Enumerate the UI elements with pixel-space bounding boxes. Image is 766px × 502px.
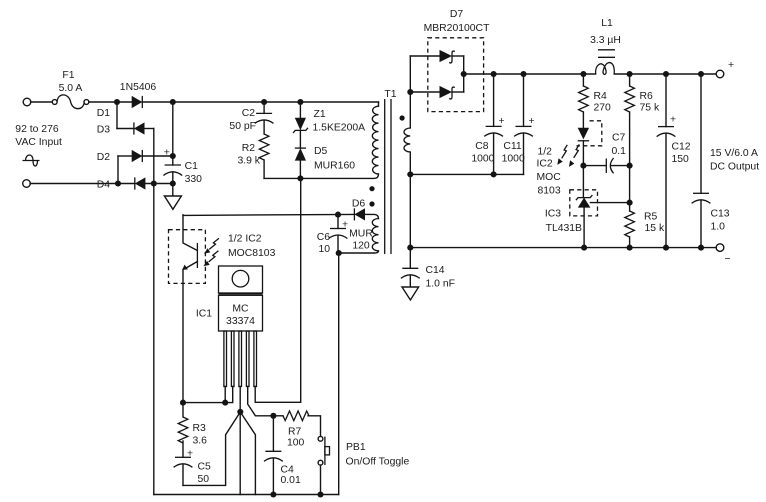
diode D1 [117,96,173,108]
label 150 [672,154,690,165]
output terminal plus [716,70,724,78]
svg-text:C6: C6 [317,232,331,243]
svg-text:1/2: 1/2 [538,147,553,158]
capacitor C6 [329,215,348,253]
svg-text:+: + [528,116,534,127]
label 3.6 [193,436,208,447]
ground C14 [402,287,419,300]
label D4 [97,180,111,191]
wire drain column down to IC1 pin5 [255,178,301,402]
node D3-D4 negative [151,180,157,186]
label 75 k [640,103,660,114]
opto LED dashed box [577,121,602,146]
node D7 anodes [407,89,413,95]
svg-text:33374: 33374 [226,316,255,327]
IC1 pin 3 [239,331,242,387]
label D5 [314,146,328,157]
label C8 1000 [471,154,494,165]
label T1 [384,89,396,100]
svg-text:50 pF: 50 pF [229,121,256,132]
resistor R4 [579,74,589,128]
svg-text:1N5406: 1N5406 [120,82,157,93]
label R5 [644,212,658,223]
wire opto collector rail to D6 [183,214,354,215]
wire pins 1-2 to control node [183,387,233,403]
svg-text:D5: D5 [314,146,328,157]
node PB1 bottom [317,491,323,497]
wire snubber to primary bottom [300,174,378,178]
svg-text:+: + [670,115,676,126]
node IC3 anode bottom [581,245,587,251]
secondary phasing dot [400,115,405,120]
wire snubber bottom [264,177,300,179]
svg-text:0.01: 0.01 [281,475,301,486]
label 1N5406 [120,82,157,93]
node C12 bottom [663,245,669,251]
svg-text:D3: D3 [97,125,111,136]
wire primary ground bottom rail [154,494,339,496]
label TL431B [546,223,582,234]
opto phototransistor (1/2 IC2) [182,215,197,403]
resistor R5 [625,203,635,248]
svg-text:TL431B: TL431B [546,223,582,234]
label F1 [62,70,74,81]
node R3 top [180,400,186,406]
svg-text:On/Off Toggle: On/Off Toggle [346,457,410,468]
svg-text:92 to 276: 92 to 276 [15,124,59,135]
node pin1 control [222,400,228,406]
svg-text:R3: R3 [193,423,207,434]
node rectifier plus [170,99,176,105]
wire AC2 node down D2 to D4 [117,156,119,184]
node C2 top [261,99,267,105]
svg-text:C7: C7 [612,133,626,144]
svg-text:75 k: 75 k [640,103,660,114]
node C6 bottom [336,250,342,256]
svg-text:+: + [498,116,504,127]
label MUR160 [314,161,355,172]
svg-text:T1: T1 [384,89,396,100]
svg-text:15 k: 15 k [645,223,665,234]
wire pin 3 to ground rail [239,387,241,495]
svg-text:R4: R4 [594,91,608,102]
node C6 top [335,212,341,218]
node AC1 [114,99,120,105]
dual diode D7 dashed box [428,38,484,112]
node D7 output [461,71,467,77]
label 3.3 uH [590,35,621,46]
label 0.01 [281,475,301,486]
fuse F1 [52,95,89,109]
transformer core [385,99,391,254]
capacitor C13 [692,74,711,248]
transformer T1 secondary winding [404,56,410,268]
node divider [627,200,633,206]
label C1 [185,161,199,172]
node C12 top [663,71,669,77]
ground primary [164,196,181,209]
svg-text:C2: C2 [242,108,256,119]
label IC3 [545,209,561,220]
label 1.0 [711,222,726,233]
node secondary return [407,171,413,177]
svg-text:1/2 IC2: 1/2 IC2 [228,234,262,245]
label IC2 [537,159,553,170]
wire D7 cathodes join [463,56,465,92]
pushbutton PB1 [318,436,329,494]
node C13 top [698,71,704,77]
wire AC1 node down to D3 [116,102,118,129]
node AC2 [115,180,121,186]
label 1/2 [538,147,553,158]
svg-text:L1: L1 [601,18,613,29]
label IC1 [196,309,212,320]
svg-text:C13: C13 [711,209,730,220]
svg-text:MOC8103: MOC8103 [228,248,276,259]
capacitor C14 [401,268,420,287]
label C6 [317,232,331,243]
label R6 [640,91,654,102]
svg-text:15 V/6.0 A: 15 V/6.0 A [710,148,758,159]
svg-text:0.1: 0.1 [612,146,627,157]
label 50 [198,474,210,485]
svg-text:+: + [164,147,170,158]
wire aux return down to bottom rail [338,253,340,495]
label 1.0 nF [426,279,455,290]
phototransistor light arrows [203,238,219,266]
IC3 TL431B [576,166,593,248]
wire fuse to bridge node [89,101,117,103]
capacitor C4 [264,416,283,495]
label C11 [503,141,522,152]
wire D3 anode down left column [153,129,155,495]
svg-text:100: 100 [287,438,305,449]
label C2 [242,108,256,119]
svg-text:MC: MC [232,304,249,315]
svg-text:D6: D6 [352,199,366,210]
svg-text:R5: R5 [644,212,658,223]
label MOC [537,172,562,183]
label 270 [594,103,612,114]
resistor R2 [259,134,269,178]
wire secondary return rail [410,173,523,175]
zener Z1 [293,102,308,148]
wire output bottom rail [410,247,716,249]
IC1 pin 1 [224,331,227,387]
opto transistor dashed box [169,230,206,284]
node R6 top [627,71,633,77]
IC1 package tab [219,266,263,294]
svg-text:8103: 8103 [538,186,561,197]
label R4 [594,91,608,102]
resistor R6 [625,74,635,203]
capacitor C2 [255,102,274,134]
node D2 cathode to C1 [170,153,176,159]
label 15 k [645,223,665,234]
svg-text:R6: R6 [640,91,654,102]
label 92 to 276 [15,124,59,135]
svg-text:1.0: 1.0 [711,222,726,233]
svg-text:MOC: MOC [537,172,562,183]
svg-text:3.9 k: 3.9 k [237,156,260,167]
svg-text:120: 120 [352,241,370,252]
D7 top diode [410,50,463,63]
diode D4 [118,177,173,189]
svg-text:C12: C12 [672,142,691,153]
IC1 pin 5 [254,331,257,387]
wire IC3 ref to divider [590,202,629,204]
label MOC8103 [228,248,276,259]
svg-text:DC Output: DC Output [710,162,759,173]
svg-text:D2: D2 [97,152,111,163]
primary phasing dot [369,186,374,191]
svg-text:IC2: IC2 [537,159,553,170]
label 5.0 A [59,83,83,94]
svg-text:1000: 1000 [502,154,525,165]
node R5 bottom [627,245,633,251]
node R4 top [580,71,586,77]
node LED cathode / C7 left [580,163,586,169]
label DC Output [710,162,759,173]
diode D3 [117,122,154,134]
node C7 right [627,163,633,169]
svg-text:1000: 1000 [471,154,494,165]
svg-text:MUR160: MUR160 [314,161,355,172]
resistor R7 [273,411,320,436]
svg-text:C5: C5 [198,462,212,473]
IC1 pin 2 [231,331,234,387]
IC1 pin 4 [246,331,249,387]
output terminal minus [716,244,724,252]
svg-text:IC3: IC3 [545,209,561,220]
svg-text:MBR20100CT: MBR20100CT [424,23,490,34]
node C8 bottom [491,171,497,177]
capacitor C11 [514,74,534,174]
label 10 [318,244,330,255]
capacitor C7 [583,158,629,173]
input terminal top [23,98,31,106]
svg-text:PB1: PB1 [346,442,366,453]
label 120 [352,241,370,252]
node output common tap [407,245,413,251]
capacitor C5 [174,449,193,486]
opto LED (1/2 IC2) [578,128,589,166]
svg-text:1.0 nF: 1.0 nF [426,279,455,290]
node C4 bottom [270,491,276,497]
label L1 [601,18,613,29]
label 50 pF [229,121,256,132]
label 3.9 k [237,156,260,167]
label R7 [288,427,302,438]
capacitor C8 [484,74,504,174]
label C11 1000 [502,154,525,165]
wire top input to fuse [31,101,53,103]
label 33374 [226,316,255,327]
label D3 [97,125,111,136]
svg-text:C11: C11 [503,141,522,152]
resistor R3 [178,403,188,458]
svg-text:+: + [728,60,734,71]
input terminal bottom [23,180,31,188]
svg-text:IC1: IC1 [196,309,212,320]
svg-text:150: 150 [672,154,690,165]
capacitor C1 [163,147,182,196]
diode D5 [295,148,306,178]
label C4 [281,465,295,476]
svg-text:330: 330 [185,174,203,185]
wire C1 column [172,102,174,165]
label C14 [426,265,445,276]
label D6 [352,199,366,210]
wire C5 return loop [183,412,240,485]
svg-text:C8: C8 [475,141,489,152]
aux phasing dot [369,201,374,206]
svg-text:10: 10 [318,244,330,255]
wire top rail D1 to transformer [173,101,379,103]
svg-text:D1: D1 [97,108,111,119]
label C8 [475,141,489,152]
node snubber bottom to drain [297,175,303,181]
svg-text:MUR: MUR [349,229,373,240]
wire output rail left of L1 [464,73,596,75]
label C7 [612,133,626,144]
transformer T1 primary winding [372,102,378,174]
wire output rail right of L1 [614,73,716,75]
capacitor C12 [657,74,676,248]
label 0.1 [612,146,627,157]
label 330 [185,174,203,185]
node C1 bottom [170,180,176,186]
IC3 dashed box [570,190,598,216]
svg-text:3.3 µH: 3.3 µH [590,35,621,46]
wire pin 4 to R7 [248,387,274,416]
svg-text:270: 270 [594,103,612,114]
svg-text:D4: D4 [97,180,111,191]
node C8 top [491,71,497,77]
svg-text:−: − [725,254,731,265]
label R2 [242,143,256,154]
label Z1 [314,109,326,120]
label C5 [198,462,212,473]
label D2 [97,152,111,163]
label D1 [97,108,111,119]
label plus [728,60,734,71]
label 1.5KE200A [313,123,366,134]
svg-text:50: 50 [198,474,210,485]
IC1 package body [219,295,263,331]
inductor L1 [596,50,615,75]
transformer T1 aux winding [339,219,379,254]
svg-text:C14: C14 [426,265,445,276]
label On/Off Toggle [346,457,410,468]
svg-text:5.0 A: 5.0 A [59,83,83,94]
node Z1 top [297,99,303,105]
diode D6 [354,208,378,220]
svg-text:C1: C1 [185,161,199,172]
label VAC Input [15,137,62,148]
wire source node right diagonal [240,412,255,495]
label minus [725,254,731,265]
label C13 [711,209,730,220]
wire bottom input to bridge [30,183,118,185]
svg-text:1.5KE200A: 1.5KE200A [313,123,366,134]
D7 bottom diode [410,86,463,99]
label 15 V/6.0 A [710,148,758,159]
diode D2 [118,150,173,162]
label MC [232,304,249,315]
svg-text:Z1: Z1 [314,109,326,120]
label R3 [193,423,207,434]
svg-text:F1: F1 [62,70,74,81]
label PB1 [346,442,366,453]
svg-text:R7: R7 [288,427,302,438]
svg-text:3.6: 3.6 [193,436,208,447]
label MBR20100CT [424,23,490,34]
label D7 [450,9,464,20]
svg-text:VAC Input: VAC Input [15,137,62,148]
node source pins [237,409,243,415]
label 1/2 IC2 [228,234,262,245]
svg-text:R2: R2 [242,143,256,154]
label MUR [349,229,373,240]
svg-text:D7: D7 [450,9,464,20]
AC sine symbol [23,155,40,166]
label 100 [287,438,305,449]
node C4 top [270,413,276,419]
label 8103 [538,186,561,197]
svg-text:C4: C4 [281,465,295,476]
node C11 top [520,71,526,77]
LED light arrows [557,144,579,167]
label C12 [672,142,691,153]
node C13 bottom [698,245,704,251]
